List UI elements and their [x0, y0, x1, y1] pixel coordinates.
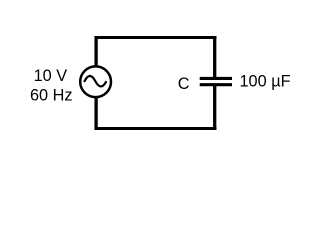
- AC voltage source V1 (10 V 60 Hz): [80, 66, 111, 97]
- wire: right lower (capacitor bottom lead): [213, 84, 216, 130]
- wire: bottom (node between source - and capacitor bottom): [95, 127, 217, 130]
- wire: left upper (source top lead): [94, 36, 97, 67]
- wire: top (node between source + and capacitor top): [95, 36, 217, 39]
- svg-text:10 V: 10 V: [34, 67, 68, 85]
- svg-text:60 Hz: 60 Hz: [30, 87, 73, 105]
- svg-text:C: C: [178, 75, 190, 93]
- wire: right upper (capacitor top lead): [213, 36, 216, 79]
- wire: left lower (source bottom lead): [94, 98, 97, 131]
- capacitor C (plates): [200, 78, 232, 84]
- svg-text:100 µF: 100 µF: [240, 73, 291, 91]
